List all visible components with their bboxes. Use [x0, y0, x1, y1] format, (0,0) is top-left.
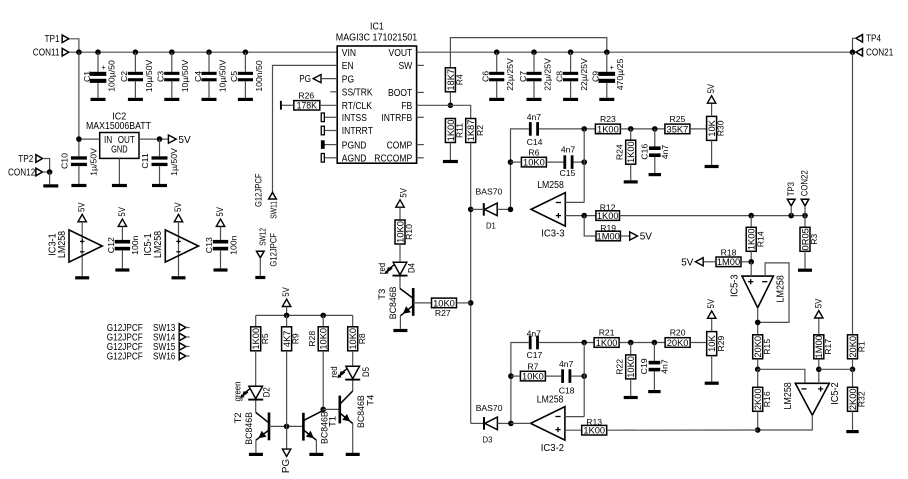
- wire IC2 OUT to 5V: [139, 138, 168, 140]
- diode D1 BAS70: [483, 203, 485, 216]
- svg-text:red: red: [377, 263, 388, 274]
- svg-text:R27: R27: [435, 308, 451, 318]
- svg-text:5V: 5V: [173, 202, 184, 212]
- svg-text:TP1: TP1: [45, 34, 60, 45]
- LED D2 green: [249, 386, 263, 398]
- resistor R2 1K87: [466, 119, 476, 143]
- svg-text:10K0: 10K0: [523, 158, 545, 169]
- resistor R29 10K pull-up: [707, 332, 717, 356]
- svg-text:R1: R1: [857, 341, 867, 352]
- supply 5V above R30: [707, 96, 715, 103]
- svg-text:LM258: LM258: [537, 180, 564, 191]
- resistor R32 2K00: [852, 369, 854, 387]
- wire IC5-2 noninverting input: [818, 369, 820, 383]
- svg-text:22µ/25V: 22µ/25V: [542, 58, 552, 91]
- ground IC5-1: [172, 276, 186, 279]
- svg-text:R25: R25: [670, 114, 686, 124]
- wire VOUT bus: [417, 51, 853, 53]
- node CON11: [62, 48, 69, 56]
- supply 5V LED rail: [282, 299, 290, 306]
- svg-text:LM258: LM258: [783, 382, 794, 410]
- resistor R27 10K0: [413, 302, 431, 304]
- wire CON12 to ground: [44, 171, 49, 173]
- svg-text:5V: 5V: [117, 207, 128, 217]
- capacitor C3: [169, 49, 175, 55]
- svg-text:C16: C16: [640, 144, 650, 160]
- svg-text:100µ/50: 100µ/50: [106, 60, 116, 92]
- wire C15 node to inverting input: [583, 129, 585, 203]
- pin INTRRT terminator: [324, 130, 337, 132]
- wire C18 node to inverting input: [583, 343, 585, 417]
- resistor R3 0R05 shunt: [804, 216, 806, 228]
- wire IC5-2 output: [758, 415, 813, 430]
- svg-text:C11: C11: [140, 153, 150, 168]
- wire TP4 to bus: [853, 38, 855, 52]
- svg-text:IC5-2: IC5-2: [830, 382, 841, 405]
- svg-text:1K00: 1K00: [583, 426, 605, 437]
- net label PG output: [313, 75, 321, 83]
- resistor R22 10K0: [630, 343, 632, 355]
- svg-text:5V: 5V: [813, 298, 824, 308]
- svg-text:LM258: LM258: [776, 275, 787, 303]
- svg-text:C1: C1: [82, 71, 92, 82]
- wire R8 to D5: [352, 351, 354, 367]
- svg-text:R15: R15: [762, 339, 772, 355]
- svg-text:SS/TRK: SS/TRK: [342, 88, 373, 99]
- svg-text:CON12: CON12: [8, 167, 36, 178]
- svg-text:22µ/25V: 22µ/25V: [505, 58, 515, 91]
- svg-text:R8: R8: [357, 333, 367, 344]
- node TP3: [787, 199, 795, 206]
- svg-text:R10: R10: [404, 224, 414, 240]
- wire R5 to D2: [255, 351, 257, 387]
- wire R13 to IC5-2 output: [607, 429, 758, 431]
- svg-text:CON21: CON21: [866, 48, 894, 59]
- svg-text:C5: C5: [229, 71, 239, 82]
- svg-text:R17: R17: [823, 339, 833, 355]
- svg-text:R3: R3: [809, 234, 819, 245]
- resistor R15 20K0: [753, 335, 763, 359]
- svg-text:G12JPCF: G12JPCF: [107, 352, 143, 363]
- svg-text:1M00: 1M00: [597, 231, 620, 242]
- svg-text:10K0: 10K0: [319, 328, 330, 350]
- svg-text:5V: 5V: [681, 257, 693, 268]
- wire to IC2 input: [78, 52, 80, 156]
- svg-text:5V: 5V: [640, 232, 652, 243]
- resistor R17 1M00: [814, 335, 824, 359]
- svg-text:D3: D3: [483, 435, 493, 445]
- node PG base junction: [284, 424, 290, 430]
- capacitor C12 100n: [118, 219, 126, 226]
- svg-text:R32: R32: [857, 391, 867, 407]
- svg-text:1M00: 1M00: [717, 257, 740, 268]
- svg-text:R20: R20: [670, 328, 686, 338]
- svg-text:SW: SW: [399, 61, 413, 72]
- svg-text:R16: R16: [762, 391, 772, 407]
- ground IC3-1: [75, 276, 89, 279]
- svg-text:10K0: 10K0: [626, 356, 637, 378]
- node TP1: [62, 35, 69, 43]
- wire IC2 GND: [118, 158, 120, 184]
- svg-text:PG: PG: [281, 459, 292, 473]
- transistor T4 BC846B: [338, 396, 341, 424]
- wire R12 output to CON22: [620, 215, 806, 217]
- capacitor C16 4n7: [654, 129, 656, 147]
- svg-text:C7: C7: [518, 71, 528, 82]
- wire IC5-3 noninverting input: [750, 262, 752, 276]
- svg-text:R28: R28: [307, 331, 317, 347]
- svg-text:20K0: 20K0: [667, 338, 689, 349]
- svg-text:PG: PG: [299, 74, 311, 85]
- wire FB: [417, 104, 451, 106]
- svg-text:BAS70: BAS70: [476, 187, 503, 197]
- supply 5V at IC2 output: [168, 135, 176, 143]
- svg-text:AGND: AGND: [342, 154, 367, 165]
- svg-text:R5: R5: [260, 333, 270, 344]
- supply 5V above R10: [396, 200, 404, 207]
- resistor R14 1K00: [750, 216, 752, 228]
- svg-text:IC5-3: IC5-3: [729, 274, 740, 297]
- svg-text:CON22: CON22: [800, 170, 811, 196]
- svg-text:T1: T1: [328, 416, 339, 427]
- wire IC3-2 inverting input: [565, 416, 584, 418]
- svg-text:D4: D4: [406, 263, 417, 273]
- node TP2: [36, 155, 43, 163]
- svg-text:D2: D2: [261, 387, 272, 397]
- svg-text:CON11: CON11: [33, 48, 60, 59]
- wire to IC5-2 inverting input: [758, 369, 805, 383]
- svg-text:COMP: COMP: [387, 140, 413, 151]
- svg-text:SW11: SW11: [269, 201, 278, 219]
- resistor R16 2K00: [757, 369, 759, 387]
- wire R9 to base rail: [286, 351, 288, 427]
- node CON12: [36, 168, 43, 176]
- resistor R19 1M00: [584, 216, 596, 236]
- op-amp IC5-1 LM258 power: [174, 214, 182, 221]
- wire IC5-3 feedback: [758, 263, 789, 323]
- node TP4: [856, 35, 863, 43]
- svg-text:T4: T4: [366, 395, 377, 406]
- capacitor C14 4n7: [529, 122, 532, 136]
- supply 5V after R19: [630, 232, 638, 240]
- svg-text:5V: 5V: [281, 287, 292, 297]
- svg-text:100n/50: 100n/50: [254, 60, 264, 92]
- svg-text:VIN: VIN: [342, 48, 356, 59]
- wire R26 stub terminator: [281, 104, 294, 106]
- svg-text:5V: 5V: [77, 202, 88, 212]
- svg-text:100n: 100n: [130, 235, 140, 255]
- svg-text:D5: D5: [361, 367, 372, 377]
- svg-text:1K00: 1K00: [597, 211, 619, 222]
- node SW11 connector: [269, 192, 277, 199]
- pin RCCOMP stub: [417, 157, 424, 159]
- svg-text:D1: D1: [486, 221, 496, 231]
- svg-text:BOOT: BOOT: [388, 88, 413, 99]
- op-amp IC5-3 LM258 buffer: [742, 276, 773, 308]
- svg-text:R2: R2: [475, 125, 485, 136]
- svg-text:BAS70: BAS70: [476, 403, 503, 413]
- svg-text:INTSS: INTSS: [342, 113, 367, 124]
- svg-text:1K00: 1K00: [626, 141, 637, 163]
- capacitor C8: [568, 49, 574, 55]
- node CON22: [801, 199, 809, 206]
- svg-text:C19: C19: [639, 358, 649, 374]
- transistor T3 BC846B: [412, 288, 415, 316]
- net label PG down: [286, 426, 288, 450]
- svg-text:5V: 5V: [215, 207, 226, 217]
- capacitor C9: [604, 49, 610, 55]
- wire divider to C14 rail: [511, 129, 529, 210]
- svg-text:470µ/25: 470µ/25: [615, 59, 625, 91]
- resistor R24 1K00: [630, 129, 632, 140]
- pin INTSS terminator: [324, 116, 337, 118]
- svg-text:R30: R30: [716, 120, 726, 136]
- svg-text:C13: C13: [204, 237, 214, 253]
- svg-text:RCCOMP: RCCOMP: [374, 154, 412, 165]
- svg-text:TP4: TP4: [866, 34, 881, 45]
- svg-text:R7: R7: [527, 362, 538, 372]
- svg-text:C4: C4: [193, 71, 203, 82]
- svg-text:IC3-2: IC3-2: [541, 443, 565, 454]
- transistor T1 BC846B: [302, 413, 305, 441]
- svg-text:C8: C8: [554, 71, 564, 82]
- capacitor C18 4n7: [561, 369, 564, 383]
- pin INTRFB stub: [417, 116, 424, 118]
- svg-text:PGND: PGND: [342, 140, 367, 151]
- svg-text:10K0: 10K0: [433, 298, 455, 309]
- svg-text:C17: C17: [527, 350, 543, 360]
- svg-text:C10: C10: [60, 153, 70, 169]
- svg-text:100n: 100n: [228, 235, 238, 255]
- pin SS/TRK stub: [330, 91, 337, 93]
- svg-text:C12: C12: [106, 237, 116, 253]
- svg-text:10µ/50V: 10µ/50V: [217, 60, 227, 93]
- svg-text:TP2: TP2: [18, 154, 33, 165]
- svg-text:5V: 5V: [706, 298, 717, 308]
- svg-text:TP3: TP3: [786, 182, 797, 196]
- svg-text:4n7: 4n7: [561, 145, 576, 155]
- ground T4 emitter: [346, 453, 360, 456]
- capacitor C11: [159, 139, 161, 156]
- svg-text:PG: PG: [342, 74, 354, 85]
- svg-text:FB: FB: [401, 101, 412, 112]
- svg-text:C14: C14: [527, 137, 543, 147]
- wire IC3-2 noninverting input: [565, 429, 582, 431]
- wire TP1 to bus: [71, 39, 79, 52]
- wire T1 collector to T4 base: [322, 409, 324, 410]
- capacitor C6: [494, 49, 500, 55]
- svg-text:R29: R29: [716, 335, 726, 351]
- op-amp IC5-2 LM258 comparator: [795, 383, 829, 415]
- capacitor C17 4n7: [529, 336, 532, 350]
- wire IC3-3 inverting input: [565, 201, 584, 203]
- ground T1 emitter: [309, 453, 323, 456]
- svg-text:R23: R23: [600, 114, 616, 124]
- resistor R9 4K7: [282, 327, 292, 351]
- svg-text:R22: R22: [614, 359, 624, 375]
- svg-text:LM258: LM258: [57, 230, 68, 258]
- svg-text:R6: R6: [528, 147, 539, 157]
- svg-text:IC3-3: IC3-3: [541, 228, 565, 239]
- svg-text:green: green: [232, 382, 243, 402]
- pin SW stub: [417, 64, 424, 66]
- resistor R10 10K0: [395, 220, 405, 244]
- pin BOOT stub: [417, 91, 424, 93]
- svg-text:35K7: 35K7: [667, 124, 689, 135]
- capacitor C2: [133, 49, 139, 55]
- svg-text:INTRFB: INTRFB: [381, 113, 412, 124]
- svg-text:R11: R11: [455, 123, 465, 138]
- resistor R28 10K0: [318, 327, 328, 351]
- ground T2 emitter: [249, 453, 263, 456]
- svg-text:GND: GND: [111, 144, 128, 155]
- supply 5V before R18: [695, 258, 703, 266]
- svg-text:1µ/50V: 1µ/50V: [88, 148, 98, 176]
- capacitor C10: [71, 156, 87, 159]
- svg-text:4n7: 4n7: [527, 329, 542, 339]
- capacitor C4: [206, 49, 212, 55]
- wire R28 to T1 collector: [322, 351, 324, 410]
- svg-text:R14: R14: [755, 231, 765, 247]
- svg-text:BC846B: BC846B: [244, 412, 255, 445]
- svg-text:R9: R9: [291, 333, 301, 344]
- wire divider rail to C17: [471, 422, 484, 424]
- resistor R11 1K00: [445, 119, 455, 143]
- wire IC5-3 output: [757, 308, 759, 335]
- op-amp IC3-1 LM258 power: [78, 214, 86, 221]
- svg-text:4n7: 4n7: [660, 145, 670, 160]
- capacitor C13 100n: [216, 219, 224, 226]
- svg-text:+: +: [610, 62, 614, 72]
- svg-text:T3: T3: [377, 289, 388, 300]
- svg-text:LM258: LM258: [153, 230, 164, 258]
- svg-text:MAX15006BATT: MAX15006BATT: [86, 120, 151, 132]
- svg-text:R24: R24: [614, 144, 624, 160]
- wire SW12 to ground: [259, 258, 261, 276]
- resistor R1 20K0: [848, 335, 858, 359]
- svg-text:5V: 5V: [178, 135, 190, 146]
- supply 5V above R17: [815, 311, 823, 318]
- svg-text:1µ/50V: 1µ/50V: [169, 148, 179, 176]
- capacitor C1: [95, 49, 101, 55]
- capacitor C7: [531, 49, 537, 55]
- svg-text:C9: C9: [591, 71, 601, 82]
- wire 5V rail: [256, 314, 353, 316]
- transistor T2 BC846B: [268, 413, 271, 441]
- op-amp IC3-2 LM258: [531, 407, 565, 440]
- resistor R4 18K7: [445, 68, 455, 92]
- svg-text:C2: C2: [119, 71, 129, 82]
- wire C17 rail: [511, 343, 529, 424]
- svg-text:C3: C3: [156, 71, 166, 82]
- svg-text:VOUT: VOUT: [389, 48, 413, 59]
- svg-text:T2: T2: [233, 412, 244, 423]
- svg-text:10µ/50V: 10µ/50V: [180, 60, 190, 93]
- svg-text:4n7: 4n7: [527, 112, 542, 122]
- svg-text:INTRRT: INTRRT: [342, 126, 374, 137]
- svg-text:G12JPCF: G12JPCF: [253, 173, 263, 207]
- diode D3 BAS70: [483, 417, 485, 430]
- svg-text:red: red: [329, 366, 340, 377]
- wire IC3-3 noninverting input: [565, 215, 596, 217]
- svg-text:R18: R18: [721, 247, 737, 257]
- svg-text:R4: R4: [455, 74, 465, 85]
- svg-text:+: +: [102, 62, 106, 72]
- pin COMP stub: [417, 144, 424, 146]
- capacitor C19 4n7: [653, 343, 655, 361]
- svg-text:10µ/50V: 10µ/50V: [144, 60, 154, 93]
- svg-text:C6: C6: [481, 71, 491, 82]
- svg-text:1K00: 1K00: [596, 338, 618, 349]
- svg-text:LM258: LM258: [537, 395, 564, 406]
- wire IC2 IN: [79, 138, 100, 140]
- svg-text:5V: 5V: [706, 83, 717, 93]
- pin AGND terminator: [324, 157, 337, 159]
- svg-text:R21: R21: [599, 328, 615, 338]
- svg-text:C15: C15: [560, 168, 576, 178]
- svg-text:EN: EN: [342, 61, 354, 72]
- wire R2 to divider rail: [470, 143, 472, 424]
- svg-text:SW12: SW12: [258, 228, 267, 246]
- supply 5V above R29: [708, 311, 716, 318]
- ground T3 emitter: [393, 329, 407, 332]
- svg-text:4n7: 4n7: [559, 359, 574, 369]
- wire R4 bracket to VOUT: [450, 38, 606, 68]
- svg-text:RT/CLK: RT/CLK: [342, 101, 372, 112]
- svg-text:G12JPCF: G12JPCF: [269, 233, 279, 267]
- op-amp IC3-3 LM258: [531, 193, 565, 226]
- wire input bus VIN: [71, 51, 338, 53]
- pin PGND terminator: [324, 144, 337, 146]
- capacitor C5: [243, 49, 249, 55]
- svg-text:BC846B: BC846B: [388, 287, 399, 320]
- wire CON21 down to R1: [852, 52, 854, 335]
- svg-text:5V: 5V: [399, 188, 410, 198]
- node SW12 connector: [257, 251, 265, 258]
- resistor R5 1K00: [251, 327, 261, 351]
- wire EN to SW11: [273, 65, 338, 192]
- resistor R30 10K pull-up: [707, 116, 717, 140]
- svg-text:MAGI3C 171021501: MAGI3C 171021501: [336, 31, 418, 43]
- node CON21: [856, 48, 863, 56]
- node FB junction: [448, 103, 454, 109]
- svg-text:10K0: 10K0: [522, 372, 544, 383]
- LED D4 red: [393, 262, 407, 274]
- svg-text:1K00: 1K00: [597, 124, 619, 135]
- wire C14 to R23: [539, 128, 595, 130]
- LED D5 red: [346, 366, 360, 378]
- resistor R8 10K0: [348, 327, 358, 351]
- svg-text:178K: 178K: [297, 101, 317, 111]
- svg-text:22µ/25V: 22µ/25V: [579, 58, 589, 91]
- svg-text:4n7: 4n7: [660, 359, 670, 374]
- capacitor C15 4n7: [563, 155, 566, 169]
- svg-text:SW16: SW16: [153, 352, 176, 363]
- svg-text:R26: R26: [298, 91, 314, 101]
- wire TP2: [44, 159, 49, 173]
